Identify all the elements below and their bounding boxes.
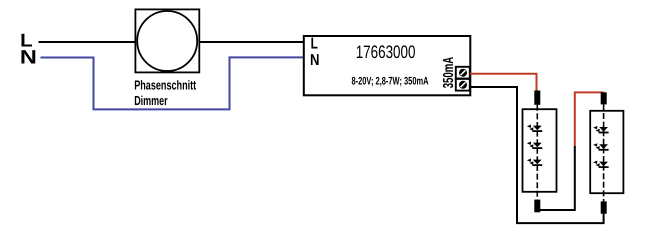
LED module LED2 box xyxy=(590,111,623,193)
LED D3 xyxy=(527,159,542,166)
connector J2 bottom xyxy=(601,201,607,213)
LED D1 xyxy=(527,125,542,132)
LED driver U1 box xyxy=(304,36,471,95)
wire black minus xyxy=(470,87,604,223)
svg-text:350mA: 350mA xyxy=(441,56,457,88)
dimmer S1 xyxy=(135,9,199,72)
svg-text:N: N xyxy=(310,52,320,69)
LED D5 xyxy=(593,143,608,150)
wire dashed link module2 xyxy=(603,104,605,201)
LED D2 xyxy=(527,142,542,149)
LED module LED1 box xyxy=(523,109,557,192)
svg-text:Phasenschnitt: Phasenschnitt xyxy=(134,77,196,92)
svg-text:8-20V; 2,8-7W; 350mA: 8-20V; 2,8-7W; 350mA xyxy=(352,76,429,88)
LED D4 xyxy=(593,126,608,133)
label Phasenschnitt Dimmer xyxy=(134,77,196,108)
wire N blue xyxy=(41,57,305,109)
wire red plus xyxy=(470,74,537,91)
terminal minus xyxy=(456,79,470,91)
connector J2 top xyxy=(601,92,607,104)
svg-text:L: L xyxy=(311,35,319,52)
svg-text:17663000: 17663000 xyxy=(356,42,416,62)
LED D6 xyxy=(593,161,608,168)
wire module1 to module2 red part xyxy=(575,92,604,146)
terminal plus xyxy=(456,67,470,79)
wire dimmer to driver xyxy=(199,41,304,43)
wire module1 to module2 black part xyxy=(539,146,575,210)
connector J1 top xyxy=(534,91,540,105)
wire L to dimmer xyxy=(39,41,136,43)
wire dashed link module1 xyxy=(536,105,538,200)
svg-text:N: N xyxy=(20,46,37,68)
connector J1 bottom xyxy=(534,200,540,213)
svg-text:Dimmer: Dimmer xyxy=(134,93,168,108)
